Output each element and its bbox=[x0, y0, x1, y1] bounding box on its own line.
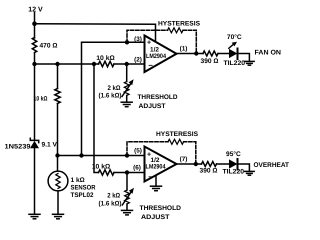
svg-text:(7): (7) bbox=[180, 156, 188, 163]
node junction dot pot1 top bbox=[125, 62, 129, 66]
svg-text:FAN ON: FAN ON bbox=[255, 50, 282, 57]
op-amp U1 1/2 LM2904 bbox=[145, 36, 177, 73]
node junction dot zener rail left bbox=[32, 62, 36, 66]
svg-text:+: + bbox=[147, 40, 151, 47]
svg-text:THRESHOLD: THRESHOLD bbox=[140, 205, 182, 212]
wire U2 output bbox=[177, 163, 202, 165]
wire zener regulated rail bbox=[35, 63, 99, 65]
ground LED1 bbox=[245, 61, 255, 65]
svg-text:ADJUST: ADJUST bbox=[139, 103, 166, 110]
wire R6 to LED1 bbox=[218, 53, 229, 55]
svg-text:70°C: 70°C bbox=[227, 34, 242, 41]
sensor RT1 1k TSPL02 bbox=[48, 171, 68, 191]
node junction dot pin6 feed top bbox=[92, 62, 96, 66]
svg-text:1N5239: 1N5239 bbox=[5, 143, 31, 150]
potentiometer R4 2k threshold adjust 1 bbox=[124, 82, 129, 96]
svg-text:390 Ω: 390 Ω bbox=[200, 168, 218, 175]
wire sensor bottom lead bbox=[57, 191, 59, 214]
ground LED2 bbox=[245, 171, 255, 175]
svg-text:(6): (6) bbox=[133, 165, 141, 172]
wire zener anode to ground bbox=[34, 148, 36, 214]
ground left rail bbox=[29, 214, 40, 219]
ground op-amp U2 bbox=[151, 186, 162, 191]
wire pot1 top lead bbox=[126, 64, 128, 82]
wire pot1 bottom lead bbox=[126, 96, 128, 102]
resistor R3 10k to U1 pin2 bbox=[99, 61, 115, 66]
svg-text:LM2904: LM2904 bbox=[146, 164, 166, 171]
svg-text:TIL220: TIL220 bbox=[224, 60, 246, 67]
node junction dot hysteresis1 tap bbox=[125, 40, 129, 44]
svg-text:ADJUST: ADJUST bbox=[141, 214, 170, 221]
svg-text:−: − bbox=[148, 173, 153, 182]
ground pot1 bbox=[121, 102, 132, 107]
wire pin6 feed from zener rail bbox=[94, 64, 99, 173]
wire divider to node wire bbox=[57, 104, 59, 156]
svg-text:(5): (5) bbox=[134, 147, 142, 154]
node junction dot sensor tap bbox=[55, 153, 59, 157]
LED D2 TIL220 fan bbox=[229, 49, 237, 58]
svg-text:2 kΩ: 2 kΩ bbox=[107, 193, 120, 200]
svg-text:9.1 V: 9.1 V bbox=[42, 142, 58, 149]
op-amp U2 1/2 LM2904 bbox=[145, 147, 177, 182]
hysteresis 2 dashed feedback bbox=[127, 142, 168, 156]
svg-text:(1.6 kΩ): (1.6 kΩ) bbox=[99, 93, 122, 100]
ground pot2 bbox=[122, 210, 133, 215]
svg-text:12 V: 12 V bbox=[28, 7, 43, 14]
resistor R5 hysteresis 1 bbox=[168, 28, 184, 33]
svg-text:−: − bbox=[148, 61, 153, 70]
wire LED2 to ground bbox=[238, 164, 250, 171]
svg-text:95°C: 95°C bbox=[226, 151, 241, 158]
node junction dot divider top bbox=[55, 62, 59, 66]
svg-text:(1.6 kΩ): (1.6 kΩ) bbox=[99, 200, 122, 207]
wire top supply rail to op-amp U1 V+ bbox=[35, 24, 156, 41]
node junction dot pot2 top bbox=[125, 170, 129, 174]
ground sensor bbox=[53, 214, 64, 219]
wire R3 to pin2 bbox=[114, 63, 145, 65]
wire sensor top lead bbox=[57, 156, 59, 172]
node junction dot plus-input branch bbox=[79, 153, 83, 157]
resistor R7 10k to U2 pin6 bbox=[99, 170, 115, 175]
svg-text:10 kΩ: 10 kΩ bbox=[96, 55, 115, 62]
wire left rail from R1 to zener bbox=[34, 53, 36, 140]
svg-text:10 kΩ: 10 kΩ bbox=[92, 164, 111, 171]
wire R7 to pin6 bbox=[114, 172, 145, 174]
node junction dot at 12V rail corner bbox=[32, 21, 37, 26]
wire sensor node wire bbox=[58, 155, 145, 157]
resistor R9 hysteresis 2 bbox=[168, 139, 184, 144]
svg-text:470 Ω: 470 Ω bbox=[40, 43, 58, 50]
wire 12V lead down to top rail bbox=[34, 13, 36, 39]
node junction dot output 1 bbox=[194, 51, 198, 55]
node junction dot output 2 bbox=[194, 162, 198, 166]
svg-text:HYSTERESIS: HYSTERESIS bbox=[156, 131, 199, 138]
svg-text:TSPL02: TSPL02 bbox=[71, 192, 94, 199]
svg-text:(3): (3) bbox=[134, 36, 142, 43]
wire pot2 top lead bbox=[126, 173, 128, 191]
svg-text:(1): (1) bbox=[180, 46, 188, 53]
wire U1 output bbox=[177, 53, 204, 55]
resistor R6 390 ohm output 1 bbox=[203, 51, 218, 56]
hysteresis 1 dashed feedback bbox=[127, 30, 168, 42]
svg-text:HYSTERESIS: HYSTERESIS bbox=[158, 20, 201, 27]
resistor R10 390 ohm output 2 bbox=[202, 162, 217, 167]
svg-text:THRESHOLD: THRESHOLD bbox=[138, 94, 178, 101]
wire pot2 bottom lead bbox=[126, 204, 128, 210]
LED D3 TIL220 overheat bbox=[229, 159, 237, 168]
potentiometer R8 2k threshold adjust 2 bbox=[125, 190, 130, 204]
resistor R1 470 ohm bbox=[32, 38, 36, 53]
svg-text:(2): (2) bbox=[134, 56, 142, 63]
svg-text:OVERHEAT: OVERHEAT bbox=[254, 162, 290, 169]
node junction dot hysteresis2 tap bbox=[125, 153, 129, 157]
wire U2 V- to ground bbox=[155, 176, 157, 186]
wire LED1 to ground bbox=[238, 54, 250, 62]
wire branch to U1 pin3 bbox=[82, 42, 145, 155]
wire R10 to LED2 bbox=[217, 163, 230, 165]
svg-text:SENSOR: SENSOR bbox=[71, 185, 96, 192]
svg-text:390 Ω: 390 Ω bbox=[201, 58, 219, 65]
resistor R2 10k divider bbox=[57, 64, 59, 89]
svg-text:10 kΩ: 10 kΩ bbox=[34, 95, 48, 102]
svg-text:1 kΩ: 1 kΩ bbox=[71, 177, 85, 184]
svg-text:2 kΩ: 2 kΩ bbox=[108, 85, 121, 92]
svg-text:TIL220: TIL220 bbox=[223, 169, 245, 176]
svg-text:LM2904: LM2904 bbox=[146, 53, 166, 60]
